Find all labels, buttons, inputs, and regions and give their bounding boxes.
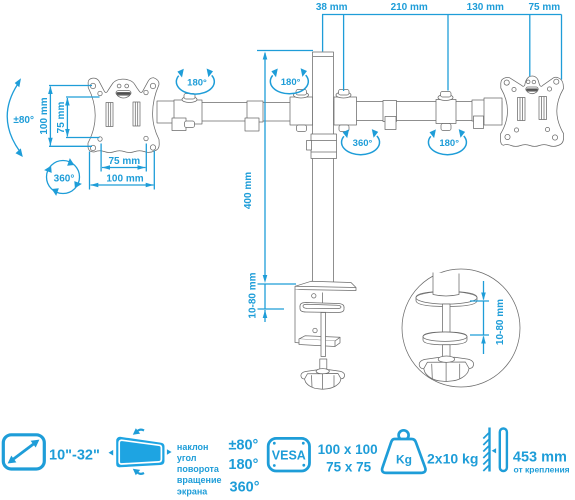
icon weight	[382, 430, 425, 473]
svg-text:180°: 180°	[281, 77, 301, 88]
svg-text:поворота: поворота	[177, 464, 220, 474]
right plate bracket	[484, 98, 502, 125]
extension line elbow	[447, 15, 449, 91]
svg-text:от крепления: от крепления	[514, 464, 570, 474]
svg-text:угол: угол	[177, 453, 197, 463]
svg-text:±80°: ±80°	[13, 115, 34, 126]
clamp screw rod	[320, 313, 327, 370]
rotation arc 360° under arm	[342, 129, 380, 155]
monitor arrows	[136, 430, 144, 433]
detail rod upper	[443, 304, 451, 333]
detail dimension 10-80 mm	[470, 281, 489, 354]
svg-text:10-80 mm: 10-80 mm	[495, 299, 506, 345]
right VESA plate	[500, 76, 563, 146]
detail rod lower	[443, 345, 451, 357]
svg-text:2x10 kg: 2x10 kg	[427, 451, 478, 467]
detail pole	[433, 273, 459, 297]
clamp bottom jaw	[299, 336, 340, 347]
icon wall distance	[483, 428, 507, 472]
rotation arc 180° pole top	[270, 68, 308, 94]
svg-text:180°: 180°	[439, 138, 459, 149]
svg-text:180°: 180°	[187, 77, 207, 88]
svg-text:100 mm: 100 mm	[39, 97, 50, 134]
right plate face eyes	[526, 80, 535, 84]
svg-text:VESA: VESA	[272, 449, 306, 463]
right plate mouth slot	[526, 87, 538, 94]
left arm tube	[160, 103, 312, 122]
left plate slots	[106, 102, 140, 127]
75 mm vertical dimension	[66, 97, 100, 138]
left VESA plate	[88, 78, 159, 153]
svg-text:экрана: экрана	[177, 486, 208, 496]
clamp wing knob	[301, 369, 345, 390]
100 mm horizontal dimension	[90, 151, 155, 190]
left plate inner holes	[98, 90, 148, 141]
svg-text:180°: 180°	[228, 457, 258, 473]
detail small disc	[423, 332, 467, 345]
svg-text:10-80 mm: 10-80 mm	[248, 272, 259, 318]
left plate outer holes	[90, 83, 155, 150]
desk clamp top plate	[295, 281, 356, 290]
svg-text:130 mm: 130 mm	[467, 2, 504, 13]
icon diagonal size	[3, 435, 44, 469]
left arm elbow	[245, 101, 263, 131]
right arm collar 2	[472, 100, 485, 129]
icon monitor tilt	[109, 428, 172, 475]
svg-text:75 mm: 75 mm	[56, 102, 67, 134]
clamp back wall	[295, 290, 323, 346]
svg-text:100 mm: 100 mm	[106, 173, 143, 184]
rotation arc 180° left arm	[176, 69, 214, 95]
svg-text:75 mm: 75 mm	[108, 156, 140, 167]
svg-text:38 mm: 38 mm	[316, 2, 348, 13]
right plate outer holes	[504, 79, 559, 140]
svg-text:10"-32": 10"-32"	[49, 448, 100, 464]
svg-text:вращение: вращение	[177, 475, 222, 485]
clamp middle shelf	[300, 303, 344, 313]
pole collar	[307, 134, 337, 159]
rotation arc 180° under arm	[428, 129, 466, 155]
svg-text:360°: 360°	[230, 480, 260, 496]
pole	[313, 52, 334, 283]
extension line joint 1	[343, 15, 345, 92]
extension line pole top	[322, 15, 324, 52]
svg-text:75 mm: 75 mm	[528, 2, 560, 13]
75 mm horizontal dimension	[101, 144, 146, 172]
right arm elbow	[436, 92, 456, 131]
detail wing knob	[419, 356, 473, 382]
svg-text:453 mm: 453 mm	[513, 450, 567, 466]
svg-text:Kg: Kg	[396, 452, 412, 466]
extension line plate hole right	[561, 15, 563, 80]
detail circle	[402, 269, 520, 387]
svg-text:наклон: наклон	[177, 442, 209, 452]
svg-text:210 mm: 210 mm	[391, 2, 428, 13]
400 mm dimension	[257, 51, 313, 285]
svg-text:±80°: ±80°	[228, 438, 258, 454]
svg-text:100 x 100: 100 x 100	[318, 442, 378, 457]
svg-text:360°: 360°	[54, 173, 75, 184]
right plate inner holes	[512, 87, 552, 132]
left plate face eyes	[117, 84, 128, 88]
svg-text:400 mm: 400 mm	[243, 172, 254, 209]
top dim line	[322, 14, 562, 16]
100 mm vertical dimension	[49, 86, 92, 147]
10-80 mm dimension	[258, 284, 285, 322]
rotation circle 360° left	[47, 161, 80, 194]
left plate mouth slot	[116, 91, 131, 98]
right arm collar 1	[383, 101, 397, 130]
pole clamp joint left	[290, 90, 313, 132]
right arm tube	[334, 102, 502, 121]
left arm plate bracket	[157, 100, 202, 131]
tilt arc ±80°	[7, 85, 19, 152]
icon VESA badge	[268, 438, 309, 471]
svg-text:360°: 360°	[353, 138, 373, 149]
svg-text:75 x 75: 75 x 75	[326, 460, 372, 475]
detail top disc	[416, 292, 477, 307]
extension line plate hole left	[529, 15, 531, 77]
pole clamp joint right	[334, 90, 357, 132]
right plate slots	[518, 97, 547, 121]
left arm joint screw	[182, 94, 197, 128]
